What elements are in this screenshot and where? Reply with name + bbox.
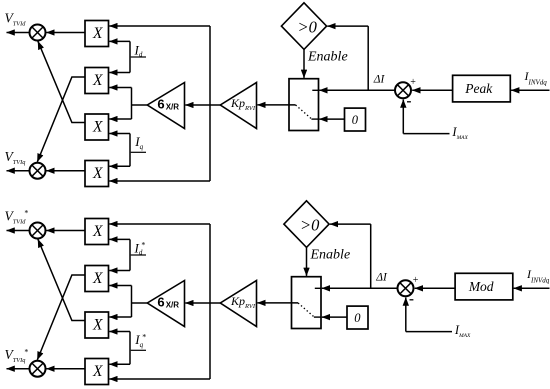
wire X3 output diagonal to d-circle (top) (38, 41, 85, 122)
gain block sigma_X/R (top) (147, 83, 184, 129)
summing junction circle (bottom) (398, 280, 414, 296)
svg-text:X/R: X/R (166, 301, 180, 310)
wire X1 output to d-circle (top) (46, 32, 85, 34)
svg-text:6: 6 (157, 96, 164, 111)
multiplier node q-axis (circle-X) (bottom) (30, 361, 46, 377)
svg-text:+: + (410, 77, 416, 88)
wire I_q into X4 (top) (109, 165, 130, 167)
svg-text:X: X (92, 363, 103, 380)
svg-text:X: X (92, 25, 103, 42)
multiplier block X4 (top) (85, 161, 109, 187)
svg-text:0: 0 (352, 113, 359, 127)
comparator diamond >0 (top) (281, 3, 326, 50)
wire deltaI tap vertical (top) (367, 26, 369, 90)
wire deltaI tap vertical (bottom) (370, 224, 372, 288)
svg-text:X: X (92, 270, 103, 287)
label tick I_q (top) (131, 151, 146, 153)
multiplier node d-axis (circle-X) (top) (30, 25, 46, 41)
wire summing output deltaI to switch (bottom) (322, 287, 398, 289)
input arrow I_INVdq (top) (511, 89, 549, 91)
constant block 0 (top) (345, 108, 366, 131)
svg-text:X: X (92, 165, 103, 182)
summing junction circle (top) (395, 82, 411, 98)
wire sigma split vertical (top) (131, 88, 133, 120)
label tick I_d (top) (131, 56, 146, 58)
label tick I_q (bottom) (131, 349, 146, 351)
feedback wire into X4 (bottom) (109, 378, 210, 380)
output arrow V_TVId (top) (7, 32, 30, 34)
wire Peak to summing plus (top) (412, 89, 452, 91)
output arrow V_TVId (bottom) (7, 230, 30, 232)
svg-text:>0: >0 (300, 216, 320, 235)
svg-text:Enable: Enable (307, 49, 348, 64)
enable arrow comparator to switch (bottom) (306, 247, 308, 276)
gain block sigma_X/R (bottom) (147, 281, 184, 327)
switch moving contact dotted wire (top) (296, 105, 312, 119)
switch moving contact dotted wire (bottom) (298, 303, 314, 317)
wire sigma split vertical (bottom) (131, 286, 133, 318)
wire X4 output to q-circle (bottom) (46, 368, 85, 370)
wire I_q into X3 (top) (109, 133, 130, 135)
constant block 0 (bottom) (347, 306, 368, 329)
switch contact stub lower (top) (311, 118, 318, 120)
output arrow V_TVIq (top) (7, 170, 30, 172)
gain block Kp_RVI (top) (220, 83, 256, 129)
wire X3 output diagonal to d-circle (bottom) (38, 239, 85, 320)
comparator diamond >0 (bottom) (284, 201, 329, 248)
svg-text:ΔI: ΔI (373, 74, 386, 86)
wire I_d into X2 (top) (109, 72, 130, 74)
feedback wire vertical (bottom) (209, 224, 211, 379)
svg-text:+: + (413, 275, 419, 286)
multiplier node d-axis (circle-X) (bottom) (30, 223, 46, 239)
switch contact stub upper (bottom) (315, 287, 321, 289)
gain block Kp_RVI (bottom) (220, 281, 256, 327)
block Mod (bottom) (455, 273, 513, 300)
wire sigma into X3 (top) (109, 118, 131, 120)
wire sigma output (top) (132, 104, 148, 106)
wire Kp output to sigma input (bottom) (185, 302, 220, 304)
svg-text:X: X (92, 118, 103, 135)
wire Kp output to sigma input (top) (185, 104, 220, 106)
svg-text:>0: >0 (298, 18, 318, 37)
feedback wire into X1 (bottom) (109, 223, 210, 225)
svg-text:X: X (92, 316, 103, 333)
multiplier block X2 (bottom) (85, 266, 109, 292)
wire switch output to Kp (top) (257, 104, 295, 106)
summing minus sign (bottom) (410, 299, 414, 301)
wire switch output to Kp (bottom) (257, 302, 298, 304)
svg-text:ΔI: ΔI (375, 272, 388, 284)
label tick I_d (bottom) (131, 254, 146, 256)
multiplier node q-axis (circle-X) (top) (30, 163, 46, 179)
feedback wire vertical (top) (209, 26, 211, 181)
input arrow I_INVdq (bottom) (514, 287, 550, 289)
wire 0 into switch (bottom) (322, 316, 347, 318)
svg-text:X: X (92, 72, 103, 89)
wire summing output deltaI to switch (top) (319, 89, 395, 91)
wire sigma into X3 (bottom) (109, 316, 131, 318)
block Peak (top) (453, 75, 511, 102)
enable arrow comparator to switch (top) (303, 49, 305, 78)
wire I_q into X4 (bottom) (109, 363, 130, 365)
svg-text:Peak: Peak (464, 81, 493, 96)
wire I_d into X1 (top) (109, 40, 130, 42)
wire I_d into X1 (bottom) (109, 238, 130, 240)
wire I_MAX to summing minus (top) (403, 133, 449, 135)
multiplier block X3 (bottom) (85, 312, 109, 338)
svg-text:0: 0 (354, 311, 361, 325)
switch block (bottom) (292, 277, 322, 329)
wire into comparator (bottom) (330, 223, 371, 225)
node I_d wire vertical (top) (129, 41, 131, 72)
svg-text:6: 6 (157, 294, 164, 309)
wire into comparator (top) (327, 25, 368, 27)
multiplier block X1 (bottom) (85, 219, 109, 245)
feedback wire into X1 (top) (109, 25, 210, 27)
wire I_q into X3 (bottom) (109, 331, 130, 333)
summing minus sign (top) (407, 101, 411, 103)
switch contact stub upper (top) (312, 89, 318, 91)
wire Mod to summing plus (bottom) (415, 287, 455, 289)
multiplier block X4 (bottom) (85, 359, 109, 385)
svg-text:Mod: Mod (468, 279, 494, 294)
node I_q wire vertical (top) (129, 134, 131, 167)
wire sigma into X2 (bottom) (109, 285, 131, 287)
wire X2 output diagonal to q-circle (top) (37, 77, 85, 162)
wire sigma into X2 (top) (109, 87, 131, 89)
svg-text:X: X (92, 223, 103, 240)
svg-text:X/R: X/R (166, 103, 180, 112)
feedback wire into X4 (top) (109, 180, 210, 182)
wire X4 output to q-circle (top) (46, 170, 85, 172)
wire sigma output (bottom) (132, 302, 148, 304)
wire I_MAX to summing minus (bottom) (406, 331, 452, 333)
multiplier block X1 (top) (85, 21, 109, 47)
wire X1 output to d-circle (bottom) (46, 230, 85, 232)
multiplier block X3 (top) (85, 114, 109, 140)
switch block (top) (289, 79, 319, 131)
wire 0 into switch (top) (319, 118, 344, 120)
wire X2 output diagonal to q-circle (bottom) (37, 275, 85, 360)
switch contact stub lower (bottom) (314, 316, 321, 318)
node I_q* wire vertical (bottom) (129, 332, 131, 365)
wire I_d into X2 (bottom) (109, 270, 130, 272)
node I_d* wire vertical (bottom) (129, 239, 131, 270)
output arrow V_TVIq (bottom) (7, 368, 30, 370)
svg-text:Enable: Enable (310, 247, 351, 262)
multiplier block X2 (top) (85, 68, 109, 94)
